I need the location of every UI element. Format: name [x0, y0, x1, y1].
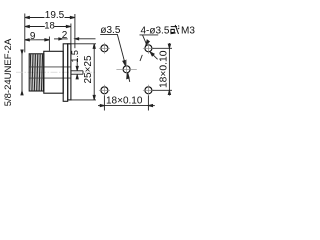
bore line upper — [29, 66, 71, 68]
thread texture — [30, 54, 43, 90]
dimension 18 — [25, 24, 71, 44]
flange (side) — [63, 44, 67, 102]
label o3.5 (center hole) — [100, 25, 130, 82]
hole top-left — [99, 43, 110, 54]
solder tab — [71, 71, 83, 74]
svg-text:2: 2 — [62, 30, 68, 41]
dimension 18x0.10 (horizontal) — [98, 96, 155, 111]
center hole — [116, 60, 136, 80]
centerline (side view) — [16, 71, 96, 73]
thread diameter dimension line — [21, 50, 23, 95]
glyph: Chinese character 'huo' (or) — [170, 25, 179, 34]
hole top-right — [143, 43, 154, 54]
svg-text:18×0.10: 18×0.10 — [106, 96, 143, 107]
dimension 1.5 (tab) — [76, 59, 78, 79]
label 4-o3.5/M3 (corner holes) — [140, 25, 196, 61]
hole bottom-right — [143, 85, 154, 96]
bore line lower — [29, 77, 71, 79]
hole bottom-left — [99, 85, 110, 96]
dimension 19.5 — [25, 14, 75, 53]
svg-text:19.5: 19.5 — [45, 10, 65, 21]
rear boss — [68, 44, 71, 100]
dimension 25x25 — [68, 44, 96, 100]
svg-text:5/8-24UNEF-2A: 5/8-24UNEF-2A — [3, 38, 14, 106]
svg-text:18×0.10: 18×0.10 — [159, 50, 170, 88]
svg-text:18: 18 — [44, 21, 55, 32]
svg-text:25×25: 25×25 — [83, 55, 94, 84]
threaded barrel — [29, 54, 44, 91]
dimension 9 — [25, 37, 50, 51]
shoulder section — [44, 51, 63, 93]
svg-text:M3: M3 — [181, 25, 195, 36]
dimension 18x0.10 (vertical) — [153, 43, 173, 96]
svg-text:1.5: 1.5 — [70, 50, 80, 63]
svg-text:9: 9 — [30, 31, 36, 42]
dimension 2 (flange thickness) — [54, 38, 96, 40]
